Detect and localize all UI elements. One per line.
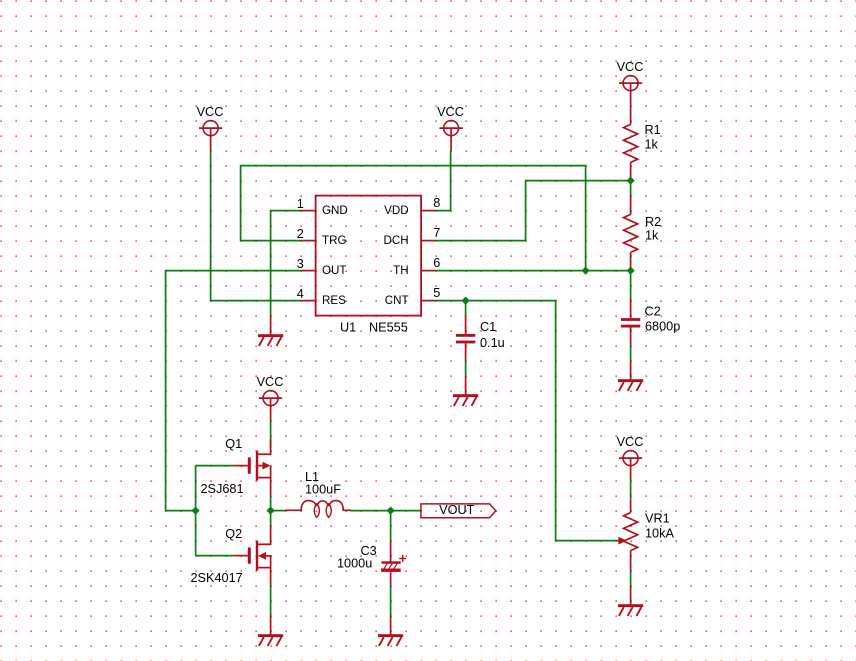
svg-text:6: 6: [433, 256, 440, 270]
svg-text:GND: GND: [322, 204, 348, 217]
svg-text:U1: U1: [340, 320, 356, 334]
svg-text:1k: 1k: [645, 138, 659, 152]
svg-text:6800p: 6800p: [645, 319, 680, 333]
svg-text:VR1: VR1: [645, 512, 670, 526]
svg-text:R2: R2: [645, 215, 661, 229]
svg-text:2: 2: [297, 227, 304, 241]
svg-text:2SK4017: 2SK4017: [191, 571, 243, 585]
svg-text:NE555: NE555: [369, 320, 408, 334]
svg-text:R1: R1: [645, 123, 661, 137]
svg-text:RES: RES: [322, 294, 346, 307]
svg-text:CNT: CNT: [385, 294, 409, 307]
svg-text:C1: C1: [480, 320, 496, 334]
svg-text:5: 5: [433, 286, 440, 300]
svg-text:VCC: VCC: [617, 435, 644, 449]
svg-text:VDD: VDD: [384, 204, 408, 217]
svg-text:7: 7: [433, 226, 440, 240]
svg-text:VCC: VCC: [617, 60, 644, 74]
svg-text:C2: C2: [645, 305, 661, 319]
svg-text:Q1: Q1: [225, 437, 242, 451]
svg-text:0.1u: 0.1u: [480, 336, 505, 350]
svg-text:VOUT: VOUT: [439, 503, 474, 517]
svg-text:VCC: VCC: [197, 105, 224, 119]
svg-text:1000u: 1000u: [337, 557, 372, 571]
svg-text:10kA: 10kA: [645, 526, 674, 540]
svg-text:1: 1: [297, 197, 304, 211]
svg-text:TRG: TRG: [322, 234, 346, 247]
svg-text:100uF: 100uF: [305, 483, 341, 497]
svg-text:Q2: Q2: [225, 527, 242, 541]
svg-text:OUT: OUT: [322, 264, 346, 277]
svg-text:8: 8: [433, 196, 440, 210]
svg-text:TH: TH: [393, 264, 408, 277]
svg-text:VCC: VCC: [257, 375, 284, 389]
svg-text:1k: 1k: [645, 229, 659, 243]
svg-text:3: 3: [297, 257, 304, 271]
svg-text:2SJ681: 2SJ681: [201, 482, 244, 496]
svg-text:VCC: VCC: [437, 105, 464, 119]
svg-text:DCH: DCH: [383, 234, 408, 247]
svg-text:4: 4: [297, 287, 304, 301]
